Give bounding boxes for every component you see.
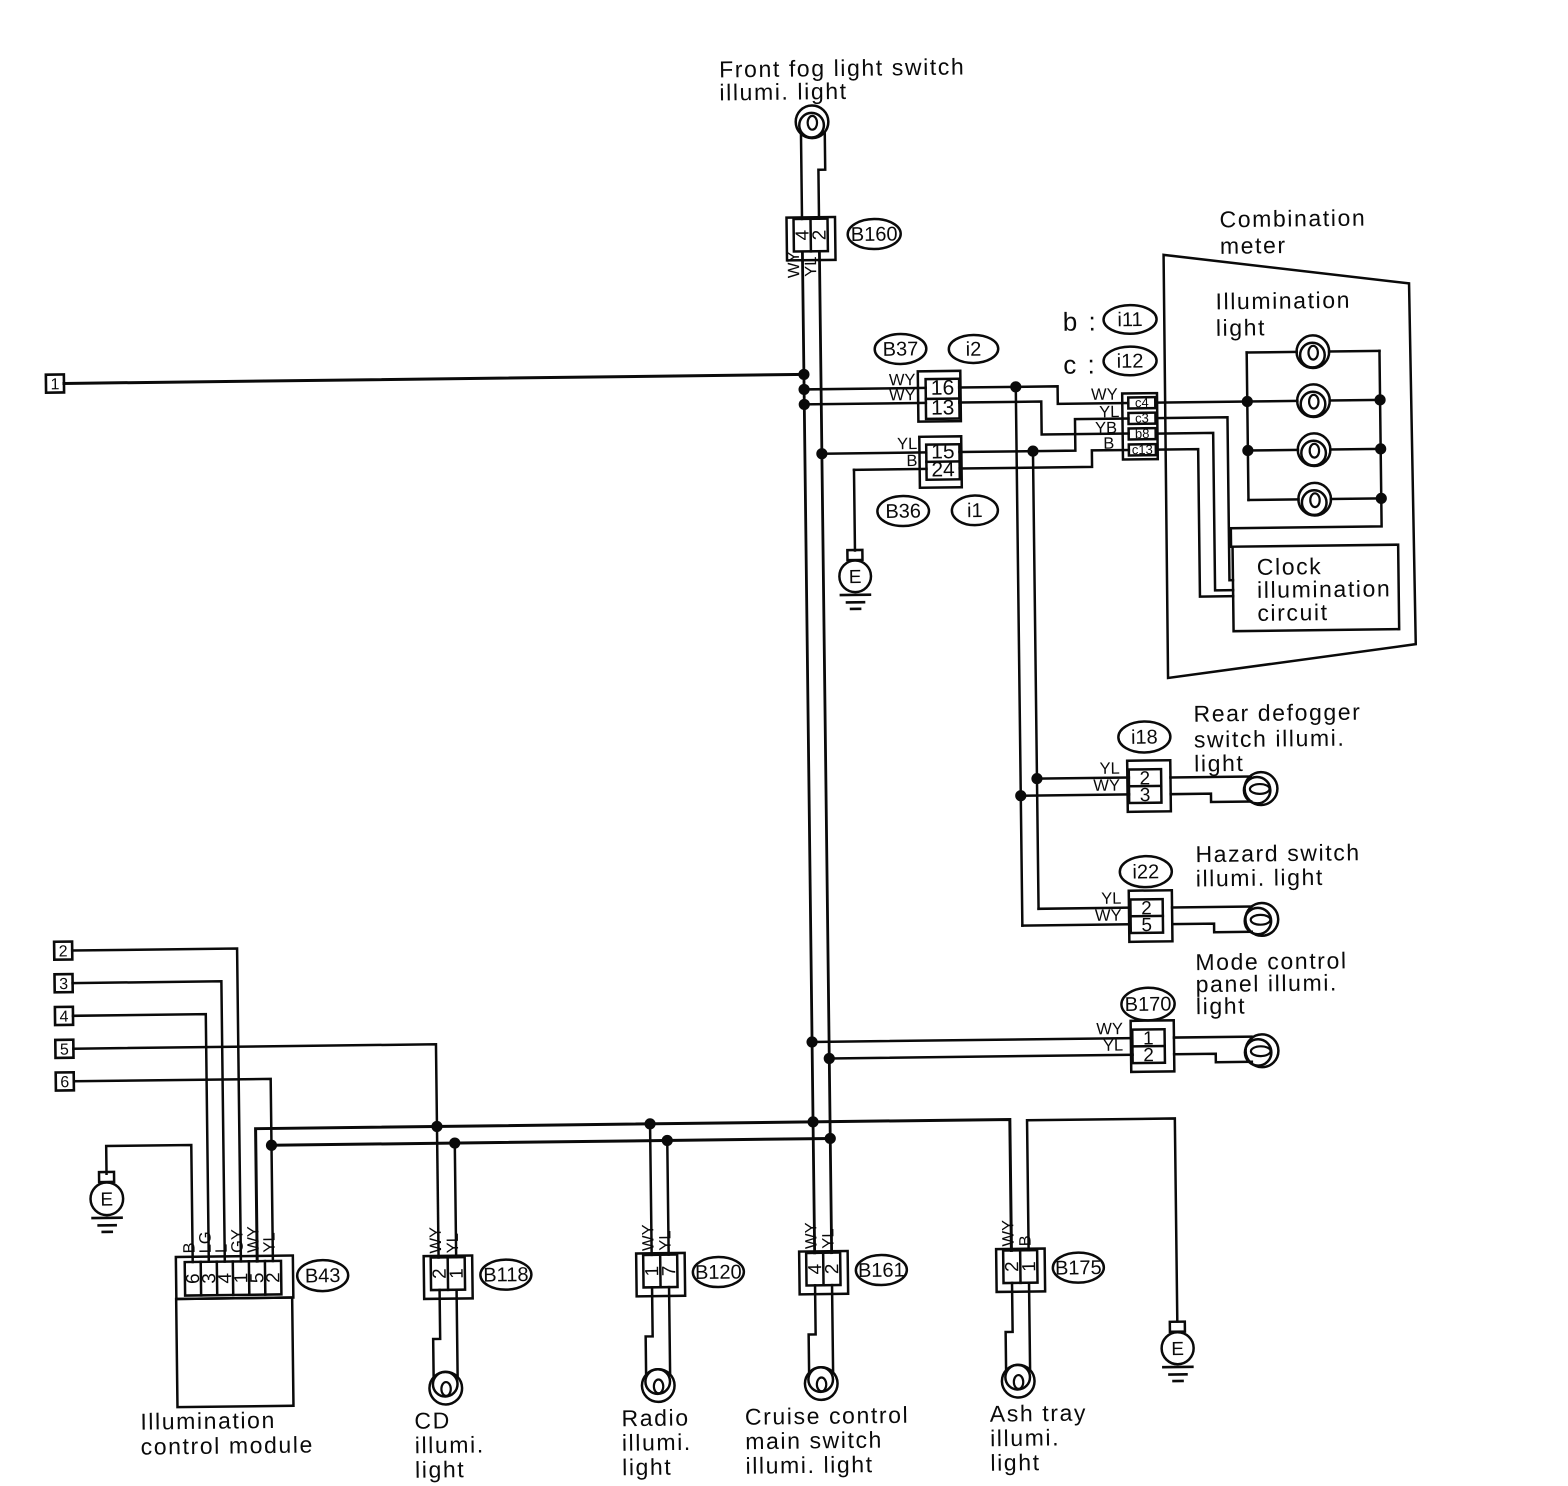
svg-text:YL: YL [1101,890,1121,908]
svg-text:c :: c : [1063,349,1097,379]
svg-text:illumi. light: illumi. light [1196,864,1324,892]
svg-text:Combination: Combination [1219,205,1366,233]
svg-text:WY: WY [999,1220,1017,1247]
svg-text:B: B [906,452,917,470]
svg-text:2: 2 [1143,1045,1154,1066]
svg-text:Illumination: Illumination [140,1407,276,1435]
svg-text:illumi. light: illumi. light [719,78,847,106]
svg-text:light: light [1196,993,1247,1020]
svg-text:1: 1 [1019,1261,1040,1272]
svg-text:B160: B160 [851,223,898,246]
svg-text:WY: WY [785,251,803,278]
svg-text:2: 2 [822,1263,843,1274]
svg-text:B37: B37 [883,338,919,360]
svg-text:5: 5 [1141,915,1152,936]
svg-text:1: 1 [50,376,59,393]
svg-text:YL: YL [261,1232,279,1252]
svg-text:i12: i12 [1117,350,1144,372]
svg-text:control module: control module [141,1431,315,1459]
svg-text:1: 1 [447,1268,468,1279]
svg-text:illumi.: illumi. [622,1429,692,1456]
svg-text:light: light [1216,314,1267,341]
svg-text:i22: i22 [1132,861,1159,883]
svg-text:24: 24 [931,458,955,481]
svg-text:2: 2 [59,943,68,960]
svg-text:WY: WY [1093,777,1120,795]
svg-text:3: 3 [1140,785,1151,806]
svg-text:B: B [1103,435,1114,453]
svg-text:meter: meter [1220,232,1287,259]
svg-text:b8: b8 [1135,426,1150,441]
svg-text:2: 2 [263,1272,284,1283]
svg-text:light: light [990,1449,1041,1476]
svg-text:illumi. light: illumi. light [745,1451,873,1479]
svg-text:c4: c4 [1135,395,1149,410]
svg-text:light: light [622,1454,673,1481]
svg-text:WY: WY [889,386,916,404]
svg-text:B43: B43 [305,1265,341,1287]
svg-text:Hazard switch: Hazard switch [1195,839,1361,867]
svg-text:YL: YL [1099,760,1119,778]
svg-text:Illumination: Illumination [1215,287,1351,315]
svg-text:c13: c13 [1132,442,1153,457]
svg-text:YL: YL [656,1230,674,1250]
svg-text:i11: i11 [1117,309,1142,331]
svg-text:5: 5 [60,1042,69,1059]
svg-text:WY: WY [1091,386,1118,404]
svg-text:main switch: main switch [745,1427,883,1455]
svg-text:YL: YL [444,1233,462,1253]
svg-text:i18: i18 [1131,727,1158,749]
svg-text:E: E [1171,1339,1184,1360]
svg-text:13: 13 [931,396,955,419]
svg-text:Cruise control: Cruise control [745,1402,910,1430]
svg-text:illumi.: illumi. [415,1431,485,1458]
svg-text:circuit: circuit [1257,599,1329,626]
svg-text:WY: WY [427,1227,445,1254]
svg-text:i2: i2 [966,339,982,361]
svg-text:E: E [849,567,862,588]
svg-text:switch illumi.: switch illumi. [1194,725,1346,753]
svg-text:WY: WY [1095,907,1122,925]
svg-text:i1: i1 [967,500,983,522]
svg-text:YL: YL [819,1228,837,1248]
svg-text:WY: WY [639,1224,657,1251]
svg-text:6: 6 [60,1074,69,1091]
svg-text:B: B [1016,1235,1034,1246]
svg-text:B175: B175 [1055,1257,1102,1280]
svg-text:B170: B170 [1125,993,1172,1016]
svg-text:3: 3 [59,976,68,993]
svg-text:E: E [100,1190,113,1211]
svg-text:YL: YL [897,435,917,453]
svg-text:Radio: Radio [621,1404,689,1431]
svg-text:B118: B118 [483,1264,528,1287]
svg-text:illumi.: illumi. [990,1424,1060,1451]
svg-text:B161: B161 [858,1259,905,1282]
svg-text:2: 2 [809,230,830,241]
svg-text:YL: YL [802,257,820,277]
svg-text:7: 7 [659,1265,680,1276]
svg-text:b :: b : [1063,306,1098,336]
svg-text:light: light [1194,750,1245,777]
svg-text:B120: B120 [695,1261,742,1284]
svg-text:Ash tray: Ash tray [990,1400,1087,1427]
svg-text:c3: c3 [1135,410,1149,425]
svg-text:4: 4 [59,1009,68,1026]
svg-text:Rear defogger: Rear defogger [1193,699,1361,727]
svg-text:WY: WY [802,1222,820,1249]
svg-text:light: light [415,1456,466,1483]
svg-text:CD: CD [414,1407,451,1433]
svg-text:B36: B36 [885,501,921,523]
